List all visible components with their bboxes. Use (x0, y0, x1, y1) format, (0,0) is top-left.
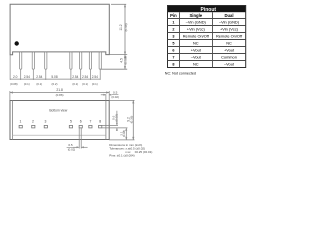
svg-text:+Vout: +Vout (224, 47, 235, 52)
pad 3 (44, 125, 47, 128)
svg-text:(0.1): (0.1) (82, 82, 88, 86)
svg-text:21.8: 21.8 (56, 88, 63, 92)
svg-text:2.54: 2.54 (72, 75, 78, 79)
dimension 21.8 extension lines (9, 91, 11, 100)
svg-text:2.54: 2.54 (36, 75, 42, 79)
svg-text:(0.08): (0.08) (10, 82, 18, 86)
svg-text:(0.44): (0.44) (124, 23, 128, 31)
svg-text:(0.1): (0.1) (36, 82, 42, 86)
dimension line 11.2 / 4.5 (124, 4, 126, 69)
svg-text:8: 8 (172, 62, 174, 66)
svg-text:(0.18): (0.18) (124, 56, 128, 64)
pin-1 marker dot (15, 41, 19, 45)
extension line body top (111, 3, 126, 5)
pin 7 (side view) (89, 52, 91, 69)
pad 8 height dim (102, 124, 118, 126)
pin number column (172, 20, 174, 66)
pin 8 (side view) (99, 52, 101, 69)
svg-text:5: 5 (70, 120, 72, 124)
svg-text:(0.36): (0.36) (130, 116, 134, 124)
svg-text:5.08: 5.08 (51, 75, 57, 79)
pad 2 (32, 125, 35, 128)
svg-text:Single: Single (190, 13, 203, 18)
standoff 0.5 dim top right (101, 94, 112, 101)
pitch labels inch (10, 82, 98, 86)
svg-text:Pinout: Pinout (201, 7, 217, 13)
svg-text:5: 5 (172, 41, 174, 45)
svg-text:6: 6 (172, 48, 174, 52)
pitch labels mm (13, 75, 98, 79)
svg-text:(0.2): (0.2) (52, 82, 58, 86)
fraction bar for pitch dims (10, 78, 100, 80)
pad 5 (69, 125, 72, 128)
svg-text:+Vin (Vcc): +Vin (Vcc) (187, 26, 206, 31)
standoff inner line bottom (13, 134, 106, 136)
pad width 0.5 dim under pin6 (73, 128, 88, 149)
dual column (216, 19, 243, 66)
svg-text:(0.1): (0.1) (24, 82, 30, 86)
svg-text:2.54: 2.54 (24, 75, 30, 79)
svg-text:3: 3 (45, 120, 47, 124)
svg-text:2.54: 2.54 (82, 75, 88, 79)
svg-text:Pins: ±0.1 (±0.004): Pins: ±0.1 (±0.004) (109, 153, 134, 157)
svg-text:2.0: 2.0 (13, 75, 18, 79)
svg-text:2: 2 (172, 27, 174, 31)
svg-text:NC: NC (193, 40, 199, 45)
svg-text:–Vout: –Vout (191, 54, 202, 59)
svg-text:1: 1 (20, 120, 22, 124)
svg-text:(0.02): (0.02) (68, 148, 76, 152)
pin pitch dimension ticks (10, 55, 100, 80)
svg-text:NC: NC (193, 61, 199, 66)
bottom view outline (10, 101, 109, 140)
extension line seating plane (109, 54, 127, 56)
table outer border (168, 6, 246, 68)
single column (183, 19, 210, 66)
pin 5 (side view) (70, 52, 72, 69)
pad 7 (89, 125, 92, 128)
table header bar (167, 6, 246, 13)
svg-text:7: 7 (172, 55, 174, 59)
standoff inner line right (105, 100, 107, 139)
pin 2 (side view) (32, 52, 34, 69)
table row lines (168, 19, 246, 61)
svg-text:Pin: Pin (170, 13, 177, 18)
svg-text:1: 1 (172, 20, 174, 24)
svg-text:(0.02): (0.02) (115, 114, 119, 121)
svg-text:–Vin (GND): –Vin (GND) (186, 19, 207, 24)
pad 6 (79, 125, 82, 128)
pad 1 (19, 125, 22, 128)
svg-text:6: 6 (80, 120, 82, 124)
svg-text:8: 8 (99, 120, 101, 124)
svg-text:(0.1): (0.1) (72, 82, 78, 86)
pad 8 (99, 125, 102, 128)
svg-text:Common: Common (221, 54, 237, 59)
svg-text:11.2: 11.2 (119, 24, 123, 30)
svg-text:NC: Not connected: NC: Not connected (165, 72, 196, 76)
svg-text:+Vin (Vcc): +Vin (Vcc) (220, 26, 239, 31)
svg-text:Dual: Dual (224, 13, 233, 18)
svg-text:7: 7 (89, 120, 91, 124)
svg-text:Remote On/Off: Remote On/Off (183, 33, 210, 38)
svg-text:(0.02): (0.02) (111, 95, 119, 99)
table column lines (179, 12, 181, 67)
svg-text:3: 3 (172, 34, 174, 38)
pin 6 (side view) (80, 52, 82, 69)
pin 1 (side view) (20, 52, 22, 69)
svg-text:0.5: 0.5 (68, 143, 73, 147)
table subheader (170, 13, 233, 18)
svg-text:Remote On/Off: Remote On/Off (216, 33, 243, 38)
svg-text:2.54: 2.54 (92, 75, 98, 79)
2.1 dim (125, 128, 127, 140)
pin 3 (side view) (45, 52, 47, 69)
dimension 9.2 line (132, 100, 134, 139)
svg-text:Bottom view: Bottom view (49, 108, 68, 112)
svg-text:(0.86): (0.86) (56, 93, 64, 97)
9.2 dim extension lines (109, 99, 134, 101)
svg-text:(0.1): (0.1) (92, 82, 98, 86)
svg-text:–Vout: –Vout (224, 61, 235, 66)
svg-text:2: 2 (32, 120, 34, 124)
dimension 21.8 line (10, 91, 109, 93)
svg-text:+Vout: +Vout (191, 47, 202, 52)
standoff inner line left (12, 100, 14, 139)
svg-text:(0.08): (0.08) (122, 130, 126, 137)
package body outline (10, 4, 109, 55)
pin numbers bottom view (20, 120, 102, 124)
extension line pin tip (100, 68, 127, 70)
svg-text:NC: NC (226, 40, 232, 45)
svg-text:–Vin (GND): –Vin (GND) (219, 19, 240, 24)
svg-text:±0.25 (±0.01): ±0.25 (±0.01) (135, 150, 153, 154)
